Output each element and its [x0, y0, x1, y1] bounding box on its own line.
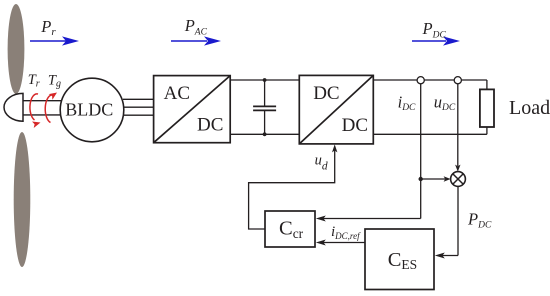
svg-text:ud: ud	[315, 152, 328, 172]
svg-text:Tr: Tr	[28, 72, 40, 90]
svg-text:PAC: PAC	[184, 16, 208, 37]
svg-text:BLDC: BLDC	[65, 99, 113, 119]
svg-text:iDC,ref: iDC,ref	[331, 224, 361, 241]
svg-text:PDC: PDC	[467, 209, 492, 230]
svg-text:DC: DC	[342, 115, 368, 136]
svg-text:Pr: Pr	[40, 17, 56, 38]
svg-text:DC: DC	[197, 114, 223, 135]
svg-text:PDC: PDC	[422, 19, 447, 41]
svg-text:DC: DC	[313, 83, 339, 104]
svg-text:uDC: uDC	[434, 92, 456, 113]
svg-text:AC: AC	[164, 83, 190, 104]
svg-text:iDC: iDC	[398, 92, 416, 113]
svg-text:Tg: Tg	[48, 73, 61, 90]
svg-text:Load: Load	[509, 97, 550, 119]
